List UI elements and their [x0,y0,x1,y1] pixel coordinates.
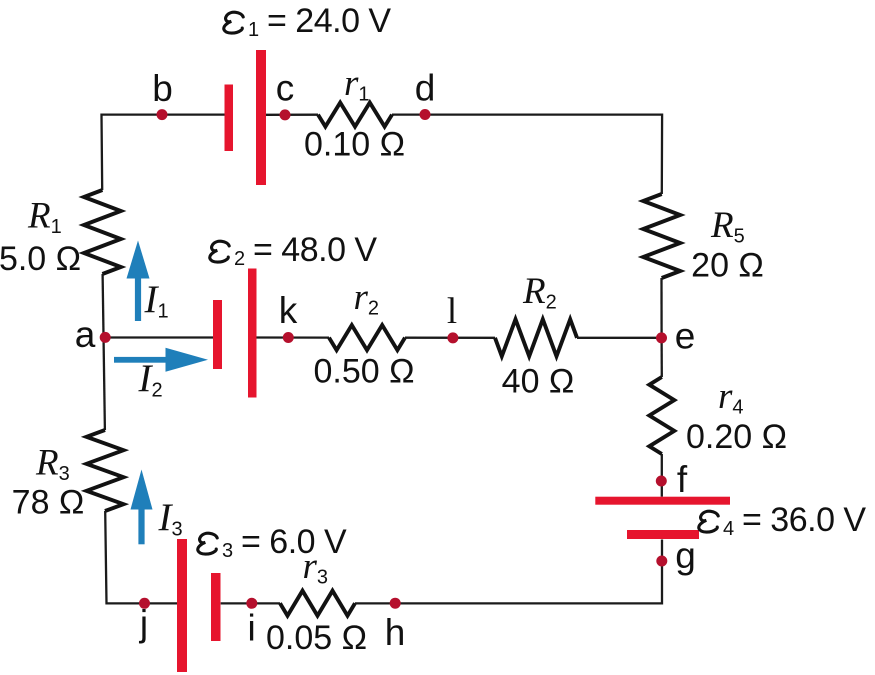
svg-text:h: h [385,612,406,653]
wire bottom-left: R3 bottom to corner to node j to E3 positive plate [105,511,177,603]
node f junction dot [656,476,667,487]
svg-text:j: j [139,603,148,644]
battery E2 positive plate (long bar) [248,269,257,398]
resistor R2 zigzag (middle branch, l-e) [495,319,577,356]
svg-text:1: 1 [248,19,259,41]
wire top-left: E1 negative plate to node b to top-left corner down to R1 [102,115,225,190]
battery E4 negative plate (short bar) [627,530,699,539]
svg-text:40 Ω: 40 Ω [502,363,575,401]
wire right: E4 positive plate through node f to r4 bottom [661,454,663,497]
svg-text:k: k [279,290,298,331]
svg-text:= 36.0 V: = 36.0 V [742,501,866,539]
label EMF E4 = 36.0 V [699,501,867,540]
battery E1 positive plate (long bar) [256,50,266,185]
svg-text:78 Ω: 78 Ω [12,484,85,522]
label EMF E1 = 24.0 V [224,2,392,41]
battery E1 negative plate (short bar) [225,85,234,152]
wire bottom-right: r3 through node h to corner up through node g to E4 negative plate [355,540,662,604]
current arrow I2 (rightward, from node a into middle branch) [114,357,168,363]
wire top: E1 positive plate through node c to r1 [266,114,318,116]
battery E3 positive plate (long bar) [177,539,187,672]
svg-text:f: f [677,459,688,500]
label EMF E2 = 48.0 V [210,231,378,270]
resistor r2 zigzag (middle branch, k-l) [329,325,405,350]
resistor R1 zigzag (left branch, b-a) [84,190,121,274]
resistor r4 zigzag (right branch, e-f) [649,377,674,454]
node g junction dot [656,556,667,567]
svg-text:0.50 Ω: 0.50 Ω [313,353,414,391]
node c junction dot [280,109,291,120]
wire middle: R2 to node e [577,337,662,339]
svg-text:20 Ω: 20 Ω [691,247,764,285]
resistor r3 zigzag (bottom branch, i-h) [280,591,355,616]
svg-text:= 6.0 V: = 6.0 V [241,523,347,561]
svg-text:i: i [247,608,255,649]
svg-text:= 24.0 V: = 24.0 V [267,2,391,40]
svg-text:0.05 Ω: 0.05 Ω [266,619,367,657]
node i junction dot [246,598,257,609]
node k junction dot [283,332,294,343]
svg-text:3: 3 [222,540,233,562]
current arrow I3 (upward, in left branch below node a) [138,508,144,545]
battery E4 positive plate (long bar) [595,497,730,505]
battery E3 negative plate (short bar) [211,573,221,641]
resistor R5 zigzag (right branch, d-e) [643,194,680,278]
svg-text:l: l [447,291,457,332]
wire right: R5 bottom to node e [660,278,662,338]
current arrow I1 (upward, in left branch above node a) [135,277,141,322]
resistor R3 zigzag (left branch, a-j) [87,430,124,511]
svg-text:a: a [75,314,96,355]
wire middle: E2 positive plate through node k to r2 [257,336,330,338]
resistor r1 zigzag (top branch, c-d) [318,103,392,127]
node a junction dot [100,332,111,343]
svg-text:= 48.0 V: = 48.0 V [253,231,377,269]
svg-text:e: e [675,316,696,357]
label EMF E3 = 6.0 V [198,523,347,562]
node l junction dot [447,332,458,343]
wire middle: node a to E2 negative plate [104,336,213,338]
svg-text:g: g [675,535,696,576]
wire bottom: E3 negative plate through node i to r3 [221,602,280,604]
node b junction dot [157,109,168,120]
svg-text:2: 2 [234,248,245,270]
svg-text:4: 4 [723,518,734,540]
node d junction dot [420,109,431,120]
node e junction dot [656,332,667,343]
wire middle: r2 through node l to R2 [405,337,495,339]
wire left: R1 bottom through node a to R3 top [103,274,105,430]
node h junction dot [390,598,401,609]
svg-text:5.0 Ω: 5.0 Ω [0,240,81,278]
svg-text:b: b [152,68,173,109]
svg-text:d: d [415,68,436,109]
node j junction dot [139,598,150,609]
svg-text:0.10 Ω: 0.10 Ω [304,126,405,164]
battery E2 negative plate (short bar) [213,300,222,369]
wire top-right: node d to corner down to R5 top [392,115,662,194]
svg-text:0.20 Ω: 0.20 Ω [686,418,787,456]
svg-text:c: c [276,68,295,109]
wire right: node e to r4 top [660,338,663,377]
